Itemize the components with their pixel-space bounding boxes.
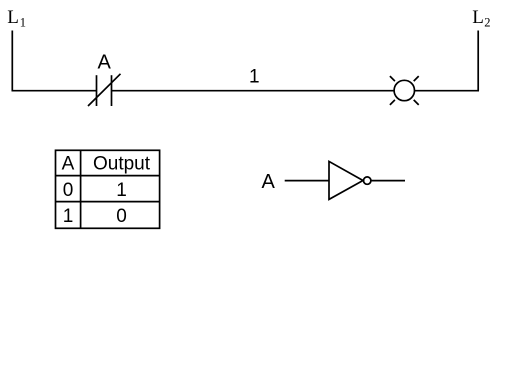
svg-text:1: 1	[63, 206, 74, 227]
svg-text:L: L	[472, 7, 484, 28]
svg-text:Output: Output	[93, 154, 151, 175]
svg-text:1: 1	[249, 66, 260, 87]
svg-text:0: 0	[63, 180, 74, 201]
svg-text:2: 2	[484, 16, 490, 30]
svg-text:0: 0	[116, 206, 127, 227]
svg-text:A: A	[62, 154, 75, 175]
svg-text:1: 1	[20, 16, 26, 30]
svg-text:1: 1	[116, 180, 127, 201]
svg-text:A: A	[262, 171, 276, 193]
svg-text:L: L	[7, 7, 19, 28]
svg-text:A: A	[98, 52, 112, 74]
